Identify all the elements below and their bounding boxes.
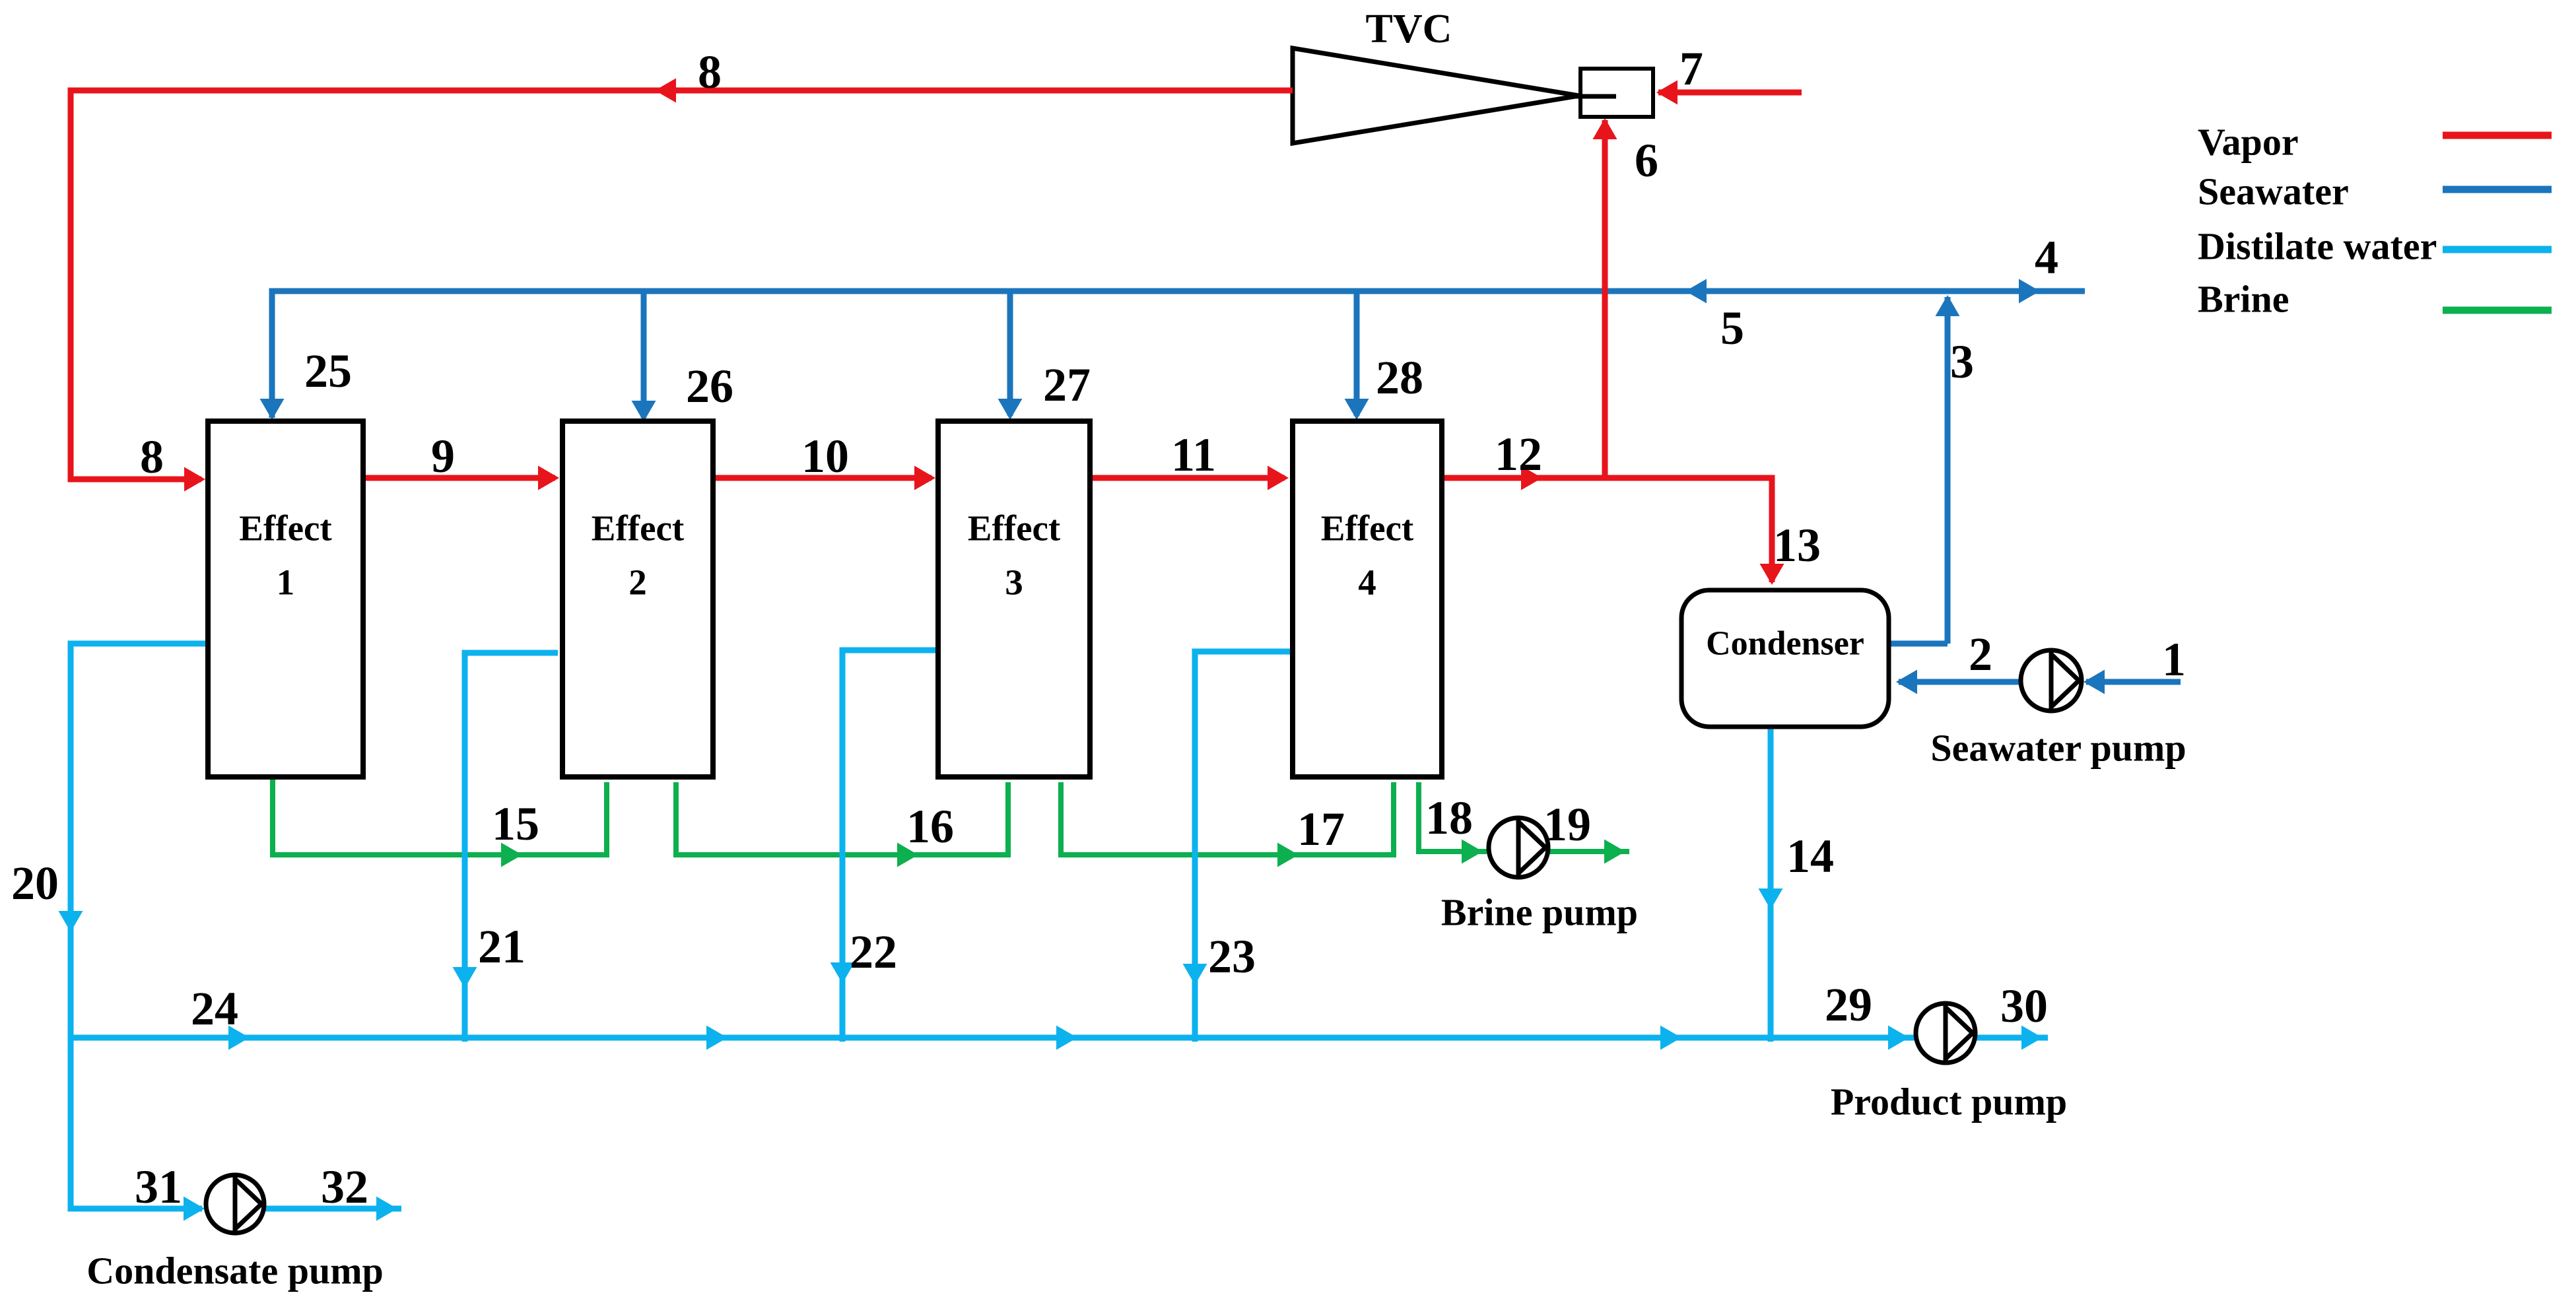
svg-text:1: 1	[277, 562, 295, 603]
svg-text:Seawater: Seawater	[2198, 170, 2349, 213]
label 5	[1720, 302, 1744, 354]
svg-text:18: 18	[1425, 791, 1473, 844]
label 12	[1495, 428, 1542, 481]
wire stream 17 brine Effect3 to Effect4	[1061, 782, 1394, 855]
svg-text:21: 21	[478, 920, 525, 973]
arrow stream 11	[1268, 466, 1289, 490]
svg-text:23: 23	[1208, 930, 1256, 983]
arrow stream 23 down	[1183, 964, 1207, 985]
arrow stream 1 into pump	[2084, 670, 2105, 694]
label 10	[801, 430, 849, 483]
legend text Brine	[2198, 278, 2289, 321]
legend text Vapor	[2198, 121, 2299, 164]
legend text Distilate water	[2198, 225, 2437, 268]
label 8 top	[698, 46, 722, 98]
label Condensate pump	[86, 1250, 384, 1292]
label 24	[191, 982, 238, 1035]
arrow stream 2 into condenser	[1896, 670, 1917, 694]
wire stream 11 vapor	[1093, 475, 1285, 481]
svg-text:7: 7	[1679, 42, 1703, 95]
seawater pump symbol	[2021, 650, 2082, 711]
arrow stream 19	[1604, 840, 1625, 864]
wire stream 6 overlay at header crossing	[1602, 277, 1608, 305]
svg-text:15: 15	[492, 797, 539, 850]
arrow stream 4 right	[2019, 279, 2040, 304]
label 21	[478, 920, 525, 973]
arrow stream 14 down	[1759, 888, 1783, 910]
label 18	[1425, 791, 1473, 844]
condenser vessel	[1681, 590, 1889, 727]
svg-text:11: 11	[1171, 428, 1216, 481]
svg-text:4: 4	[1358, 562, 1376, 603]
label 29	[1825, 978, 1872, 1031]
svg-text:3: 3	[1005, 562, 1023, 603]
label 6	[1635, 134, 1658, 187]
product pump symbol	[1916, 1003, 1975, 1063]
arrow stream 8 left	[655, 79, 676, 103]
svg-text:30: 30	[2000, 980, 2048, 1032]
wire stream 8 vapor top run	[71, 90, 1293, 479]
svg-text:25: 25	[304, 345, 352, 397]
label 8 left	[140, 430, 164, 483]
Effect 1 evaporator vessel	[208, 421, 363, 777]
label 2	[1969, 628, 1992, 681]
svg-text:14: 14	[1786, 830, 1834, 883]
svg-text:Effect: Effect	[239, 508, 332, 549]
svg-text:19: 19	[1543, 798, 1591, 851]
legend line vapor (red)	[2443, 132, 2552, 139]
arrow stream 16	[897, 843, 918, 867]
arrow stream 9	[538, 466, 559, 490]
svg-text:TVC: TVC	[1366, 7, 1452, 51]
label 4	[2035, 231, 2058, 284]
wire stream 16 brine Effect2 to Effect3	[676, 782, 1008, 855]
wire stream 7 motive steam	[1658, 90, 1802, 96]
arrow stream 26 into Effect 2	[632, 401, 656, 422]
svg-text:Effect: Effect	[968, 508, 1061, 549]
arrow stream 5 left	[1685, 279, 1707, 304]
wire stream 19 brine out	[1547, 849, 1629, 854]
wire stream 1 seawater intake	[2086, 679, 2181, 685]
arrow stream 17	[1277, 843, 1299, 867]
legend line distilate water (cyan)	[2443, 246, 2552, 253]
label Seawater pump	[1930, 727, 2186, 770]
label 11	[1171, 428, 1216, 481]
svg-text:27: 27	[1043, 358, 1091, 411]
label 20	[11, 857, 59, 910]
svg-text:5: 5	[1720, 302, 1744, 354]
label 30	[2000, 980, 2048, 1032]
svg-text:32: 32	[321, 1160, 368, 1213]
wire stream 26 feed	[641, 291, 647, 418]
arrow on header after 22	[1056, 1026, 1077, 1050]
wire stream 9 vapor	[366, 475, 555, 481]
wire stream 6 vapor to TVC	[1602, 120, 1608, 478]
wire stream 21 distillate from Effect 2	[465, 653, 558, 1042]
svg-text:4: 4	[2035, 231, 2058, 284]
legend text Seawater	[2198, 170, 2349, 213]
arrow stream 13 into condenser	[1760, 564, 1784, 585]
wire stream 18 brine Effect4 to pump	[1419, 782, 1487, 852]
legend line seawater (blue)	[2443, 186, 2552, 193]
svg-text:Condensate pump: Condensate pump	[86, 1250, 384, 1292]
arrow stream 3 up	[1936, 295, 1960, 316]
wire stream 28 feed	[1354, 291, 1360, 416]
label 32	[321, 1160, 368, 1213]
wire condenser to header connector	[1891, 641, 1948, 647]
label 14	[1786, 830, 1834, 883]
svg-text:10: 10	[801, 430, 849, 483]
svg-text:12: 12	[1495, 428, 1542, 481]
svg-text:29: 29	[1825, 978, 1872, 1031]
label TVC	[1366, 7, 1452, 51]
legend line brine (green)	[2443, 307, 2552, 314]
Effect 4 evaporator vessel	[1293, 421, 1442, 777]
arrow stream 8 into Effect 1	[184, 467, 205, 492]
svg-text:Brine pump: Brine pump	[1441, 891, 1638, 934]
arrow on header after 21	[706, 1026, 728, 1050]
svg-text:24: 24	[191, 982, 238, 1035]
arrow stream 27 into Effect 3	[998, 399, 1023, 420]
wire stream 23 overlay at brine crossing	[1192, 840, 1198, 870]
wire stream 22 distillate from Effect 3	[842, 650, 935, 1042]
wire stream 27 feed	[1007, 291, 1013, 416]
label 9	[431, 430, 455, 483]
svg-text:Product pump: Product pump	[1831, 1081, 2067, 1123]
wire stream 21 overlay at brine crossing	[462, 840, 468, 870]
arrow stream 6 up	[1593, 118, 1617, 139]
svg-text:2: 2	[1969, 628, 1992, 681]
wire stream 23 distillate from Effect 4	[1195, 652, 1290, 1042]
svg-text:Condenser: Condenser	[1706, 625, 1864, 663]
svg-text:Effect: Effect	[1321, 508, 1414, 549]
arrow stream 18 into brine pump	[1462, 840, 1483, 864]
wire stream 22 overlay at brine crossing	[840, 840, 846, 870]
arrow stream 29 into product pump	[1888, 1026, 1909, 1050]
svg-text:6: 6	[1635, 134, 1658, 187]
label 31	[135, 1160, 182, 1213]
svg-text:Seawater pump: Seawater pump	[1930, 727, 2186, 770]
arrow stream 21 down	[453, 967, 477, 988]
label 16	[906, 800, 954, 853]
label 25	[304, 345, 352, 397]
arrow stream 31 into condensate pump	[184, 1197, 205, 1221]
Effect 3 evaporator vessel	[938, 421, 1090, 777]
svg-text:2: 2	[628, 562, 647, 603]
svg-text:17: 17	[1297, 803, 1345, 855]
label 13	[1773, 519, 1821, 572]
wire stream 30 product out	[1975, 1035, 2048, 1041]
arrow stream 15	[501, 843, 522, 867]
wire stream 3 from condenser up	[1945, 297, 1951, 644]
svg-text:Vapor: Vapor	[2198, 121, 2299, 164]
label 22	[850, 925, 897, 978]
svg-text:28: 28	[1376, 351, 1423, 404]
svg-text:9: 9	[431, 430, 455, 483]
wire stream 32 condensate out	[264, 1206, 401, 1212]
svg-text:1: 1	[2162, 633, 2186, 686]
label 28	[1376, 351, 1423, 404]
arrow stream 30	[2021, 1026, 2043, 1050]
wire stream 12 vapor to condenser	[1444, 478, 1772, 582]
svg-text:26: 26	[686, 360, 733, 413]
arrow stream 20 down	[59, 911, 83, 932]
label 27	[1043, 358, 1091, 411]
svg-text:Effect: Effect	[592, 508, 685, 549]
label 7	[1679, 42, 1703, 95]
wire distillate header stream 24/29	[71, 1035, 1916, 1041]
arrow stream 10	[914, 466, 935, 490]
svg-text:13: 13	[1773, 519, 1821, 572]
arrow stream 25 into Effect 1	[260, 399, 285, 420]
wire stream 2 seawater	[1899, 679, 2021, 685]
svg-text:3: 3	[1950, 335, 1974, 388]
svg-text:16: 16	[906, 800, 954, 853]
label Brine pump	[1441, 891, 1638, 934]
label 19	[1543, 798, 1591, 851]
svg-text:22: 22	[850, 925, 897, 978]
wire stream 15 brine Effect1 to Effect2	[273, 780, 607, 855]
TVC thermocompressor body	[1293, 48, 1653, 143]
brine pump symbol	[1489, 818, 1548, 877]
arrow stream 28 into Effect 4	[1345, 399, 1369, 420]
label 17	[1297, 803, 1345, 855]
arrow stream 12	[1521, 466, 1542, 490]
condensate pump symbol	[206, 1175, 264, 1233]
label Product pump	[1831, 1081, 2067, 1123]
svg-text:20: 20	[11, 857, 59, 910]
wire stream 10 vapor	[716, 475, 932, 481]
label 1	[2162, 633, 2186, 686]
wire stream 20 distillate from Effect 1	[71, 644, 205, 1209]
label 3	[1950, 335, 1974, 388]
wire stream 14 distillate from condenser	[1768, 729, 1774, 1042]
arrow stream 7 left	[1656, 81, 1678, 105]
label 23	[1208, 930, 1256, 983]
label 26	[686, 360, 733, 413]
svg-text:Brine: Brine	[2198, 278, 2289, 321]
arrow stream 22 down	[830, 962, 855, 984]
wire seawater header stream 5/4	[272, 291, 2085, 418]
arrow on header after 20	[228, 1026, 250, 1050]
svg-text:31: 31	[135, 1160, 182, 1213]
label 15	[492, 797, 539, 850]
arrow on header after 23	[1660, 1026, 1681, 1050]
Effect 2 evaporator vessel	[562, 421, 713, 777]
svg-text:Distilate water: Distilate water	[2198, 225, 2437, 268]
arrow stream 32	[376, 1197, 397, 1221]
svg-text:8: 8	[140, 430, 164, 483]
svg-text:8: 8	[698, 46, 722, 98]
